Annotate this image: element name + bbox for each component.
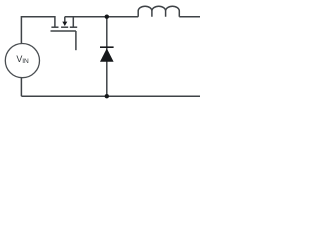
wire: VIN top to MOSFET source: [21, 17, 55, 44]
transistor Q1 (switch): [51, 17, 78, 51]
Q1 gate bar: [51, 30, 76, 32]
wire: VIN bottom to ground rail: [20, 78, 22, 97]
diode D1 cathode bar: [100, 46, 114, 48]
Q1 drain stub: [72, 17, 74, 27]
node: ground junction dot: [105, 94, 109, 98]
node: switch node junction dot: [105, 15, 109, 19]
Q1 gate wire: [75, 31, 77, 50]
inductor L1: [138, 6, 179, 17]
wire: diode branch vertical: [106, 17, 108, 97]
Q1 body stub: [64, 17, 66, 22]
Q1 body arrow: [62, 22, 67, 26]
voltage source VIN: [5, 44, 39, 78]
diode D1 triangle: [100, 48, 114, 61]
Q1 body contact bar: [61, 26, 68, 28]
wire: top rail (switch node to right edge): [65, 16, 138, 18]
Q1 drain contact bar: [70, 26, 77, 28]
wire: bottom rail: [21, 95, 200, 97]
Q1 source contact bar: [51, 26, 58, 28]
svg-text:IN: IN: [22, 58, 29, 65]
wire: top rail right of inductor: [179, 16, 200, 18]
